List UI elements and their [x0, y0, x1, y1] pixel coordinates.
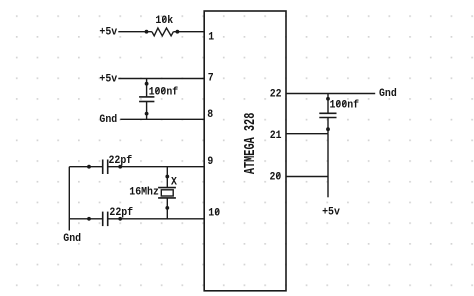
junction dot crystal top terminal	[165, 175, 169, 179]
junction dot capacitor 100nf right bottom terminal	[326, 127, 330, 131]
svg-text:+5v: +5v	[99, 27, 117, 39]
capacitor 100nf (right) bottom lead	[327, 118, 329, 134]
wire left vertical to Gnd	[68, 167, 70, 231]
junction dot capacitor 100nf right top terminal	[326, 97, 330, 101]
wire pin 10 right segment	[108, 218, 204, 220]
crystal X1 top plate	[158, 187, 176, 189]
junction dot resistor left terminal	[145, 30, 149, 34]
crystal X1 body	[161, 190, 173, 196]
svg-text:9: 9	[207, 156, 213, 168]
capacitor 22pf (top) left plate	[102, 160, 104, 175]
crystal X1 bottom lead	[166, 198, 168, 219]
capacitor 100nf (right) top lead	[327, 94, 329, 114]
junction dot capacitor 22pf top left terminal	[87, 165, 91, 169]
capacitor 100nf (left) bottom plate	[139, 101, 154, 103]
resistor 10k	[152, 28, 174, 36]
svg-text:21: 21	[270, 130, 282, 142]
junction dot resistor right terminal	[176, 30, 180, 34]
svg-text:7: 7	[208, 73, 214, 85]
wire pin 9 left segment	[69, 166, 102, 168]
svg-text:+5v: +5v	[322, 206, 340, 218]
wire pin 9 right segment	[108, 166, 204, 168]
svg-text:Gnd: Gnd	[379, 88, 397, 100]
junction dot capacitor 22pf top right terminal	[118, 165, 122, 169]
svg-text:22: 22	[270, 88, 282, 100]
wire pin 22	[286, 93, 375, 95]
crystal X1 bottom plate	[158, 197, 176, 199]
capacitor 100nf (left) top lead	[146, 79, 148, 97]
junction dot capacitor 100nf left top terminal	[145, 82, 149, 86]
wire right vertical to +5v	[327, 134, 329, 198]
crystal X1 top lead	[166, 167, 168, 188]
wire pin 8	[120, 118, 204, 120]
svg-text:Gnd: Gnd	[99, 114, 117, 126]
svg-text:16Mhz: 16Mhz	[129, 186, 159, 198]
wire pin 20	[286, 176, 328, 178]
capacitor 22pf (bottom) right plate	[107, 212, 109, 227]
svg-text:22pf: 22pf	[109, 155, 133, 167]
chip U1 ATMEGA 328 body	[204, 11, 286, 291]
svg-text:22pf: 22pf	[109, 207, 133, 219]
wire pin 1 right segment	[173, 31, 204, 33]
svg-text:1: 1	[208, 32, 214, 44]
svg-text:Gnd: Gnd	[63, 233, 81, 245]
capacitor 100nf (left) bottom lead	[146, 102, 148, 120]
capacitor 100nf (right) top plate	[319, 112, 336, 114]
svg-text:ATMEGA 328: ATMEGA 328	[243, 113, 259, 175]
junction dot capacitor 22pf bottom left terminal	[87, 217, 91, 221]
svg-text:X: X	[171, 176, 177, 188]
svg-text:+5v: +5v	[99, 73, 117, 85]
wire pin 7	[118, 78, 204, 80]
wire pin 21	[286, 133, 328, 135]
svg-text:10k: 10k	[155, 15, 173, 27]
capacitor 100nf (left) top plate	[139, 96, 154, 98]
wire pin 10 left segment	[69, 218, 102, 220]
junction dot capacitor 22pf bottom right terminal	[118, 217, 122, 221]
svg-text:100nf: 100nf	[149, 86, 179, 98]
wire pin 1 left segment	[118, 31, 152, 33]
svg-text:8: 8	[207, 109, 213, 121]
junction dot capacitor 100nf left bottom terminal	[145, 112, 149, 116]
capacitor 100nf (right) bottom plate	[319, 117, 336, 119]
capacitor 22pf (bottom) left plate	[102, 212, 104, 227]
junction dot crystal bottom terminal	[165, 206, 169, 210]
svg-text:100nf: 100nf	[330, 99, 360, 111]
capacitor 22pf (top) right plate	[107, 160, 109, 175]
